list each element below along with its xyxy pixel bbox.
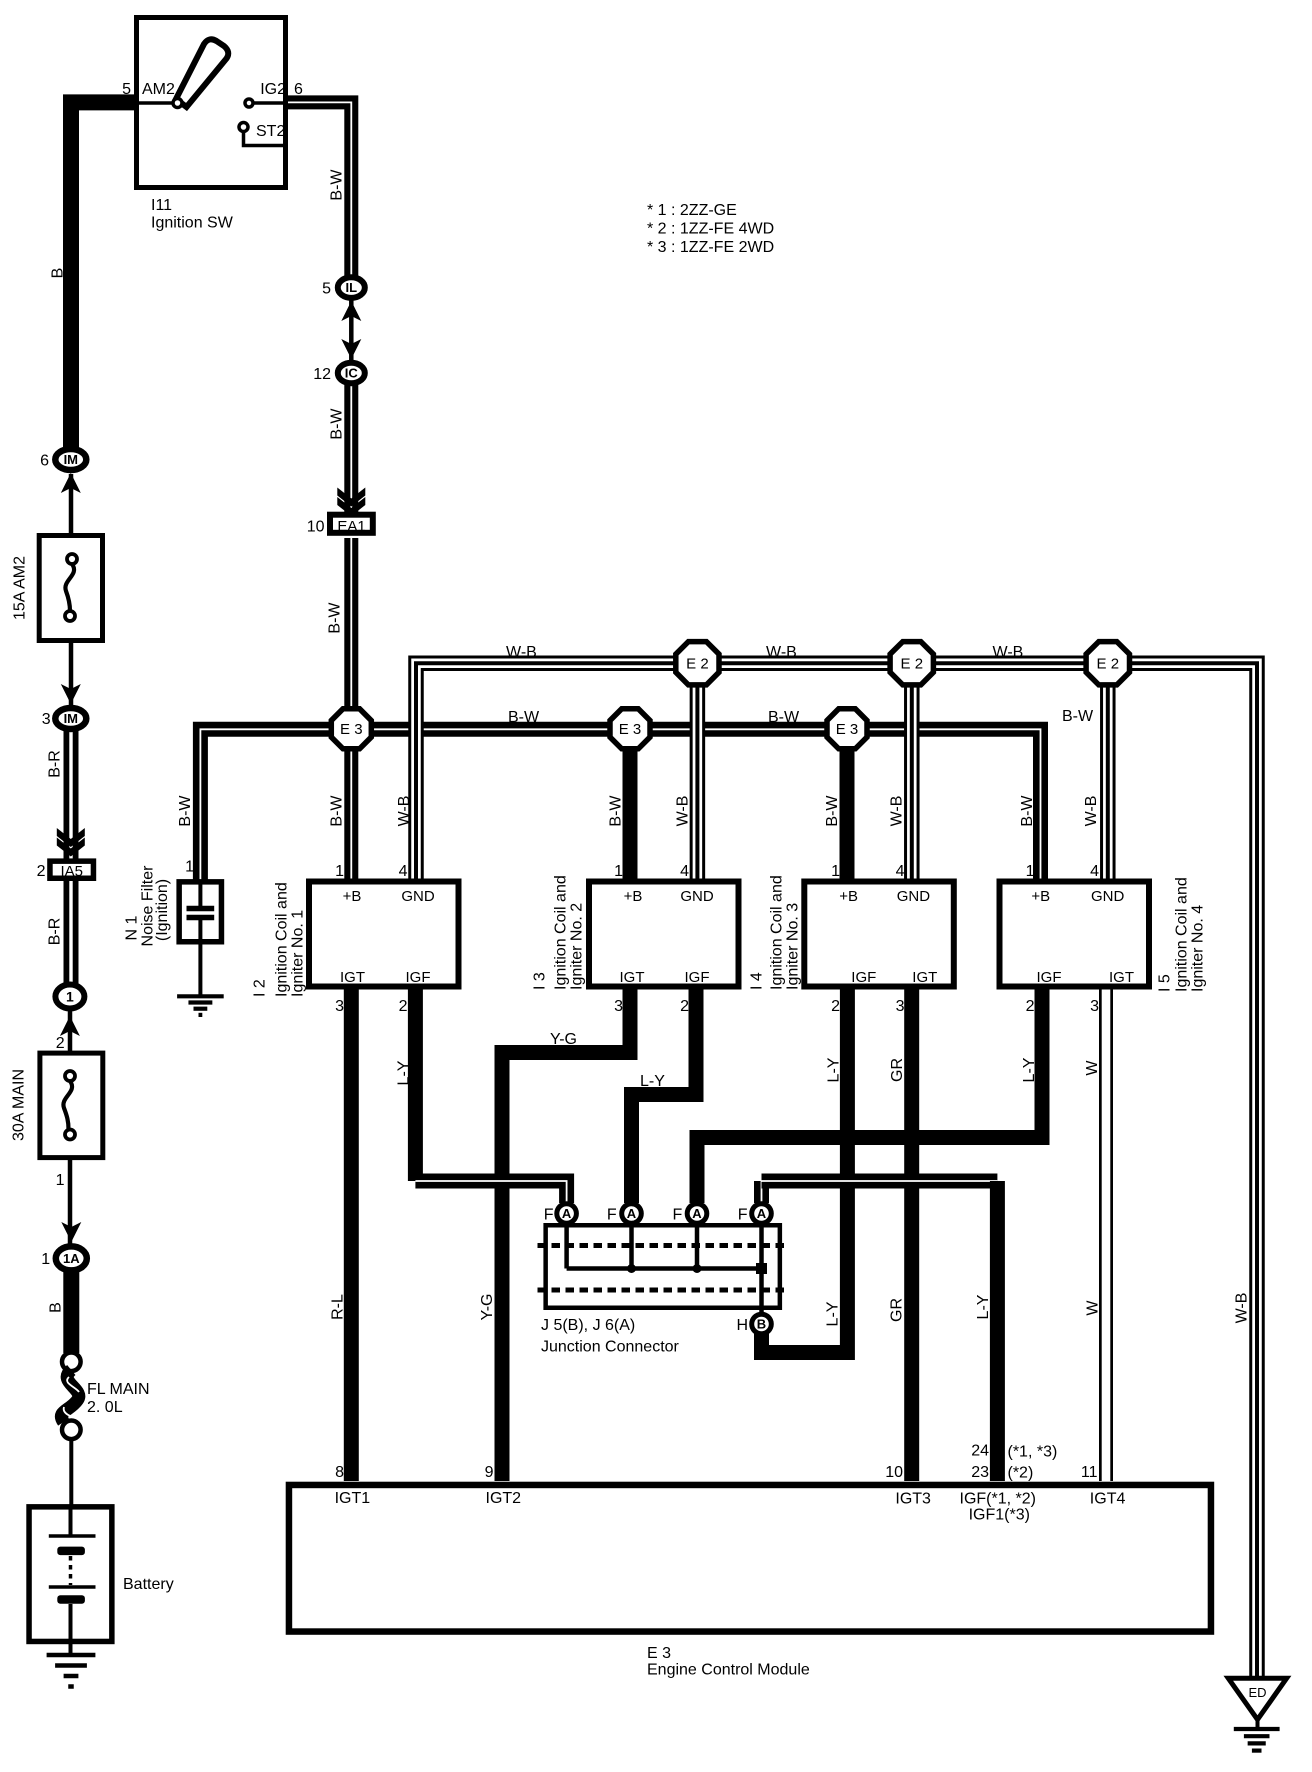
svg-text:2: 2 — [831, 998, 840, 1015]
svg-text:1A: 1A — [63, 1251, 80, 1266]
svg-text:+B: +B — [839, 888, 858, 905]
svg-text:B-W: B-W — [768, 709, 800, 726]
svg-text:B-W: B-W — [508, 709, 540, 726]
svg-text:Igniter No. 4: Igniter No. 4 — [1190, 905, 1207, 992]
svg-text:AM2: AM2 — [142, 81, 175, 98]
svg-text:10: 10 — [307, 519, 325, 536]
svg-text:H: H — [736, 1317, 748, 1334]
svg-text:IGF: IGF — [406, 969, 431, 986]
svg-text:5: 5 — [322, 281, 331, 298]
svg-text:L-Y: L-Y — [1021, 1057, 1038, 1082]
svg-text:Ignition Coil and: Ignition Coil and — [274, 882, 291, 997]
svg-text:ST2: ST2 — [256, 123, 285, 140]
svg-text:IGT1: IGT1 — [335, 1490, 371, 1507]
svg-text:W-B: W-B — [993, 644, 1024, 661]
svg-text:ED: ED — [1248, 1685, 1266, 1700]
svg-text:2: 2 — [399, 998, 408, 1015]
svg-text:FL MAIN: FL MAIN — [87, 1381, 150, 1398]
svg-text:IC: IC — [345, 366, 359, 381]
svg-text:IGF: IGF — [685, 969, 710, 986]
svg-text:W: W — [1085, 1300, 1102, 1316]
svg-text:E 3: E 3 — [836, 721, 859, 738]
svg-text:15A AM2: 15A AM2 — [12, 556, 29, 620]
svg-text:W-B: W-B — [1234, 1293, 1251, 1324]
svg-text:GND: GND — [401, 888, 435, 905]
svg-text:(*1, *3): (*1, *3) — [1008, 1444, 1058, 1461]
svg-text:2: 2 — [680, 998, 689, 1015]
svg-text:+B: +B — [1031, 888, 1050, 905]
svg-text:IL: IL — [346, 280, 358, 295]
svg-text:B-W: B-W — [824, 795, 841, 827]
svg-text:GR: GR — [889, 1298, 906, 1322]
svg-text:B-W: B-W — [177, 795, 194, 827]
svg-text:A: A — [757, 1206, 767, 1221]
svg-text:IGT: IGT — [340, 969, 365, 986]
svg-text:GND: GND — [680, 888, 714, 905]
svg-text:B-W: B-W — [1019, 795, 1036, 827]
svg-text:IGT: IGT — [1109, 969, 1134, 986]
svg-text:N 1: N 1 — [124, 915, 141, 940]
svg-text:EA1: EA1 — [337, 518, 365, 535]
svg-text:IA5: IA5 — [60, 863, 83, 880]
svg-text:4: 4 — [896, 863, 905, 880]
svg-text:F: F — [544, 1207, 554, 1224]
svg-text:IGT4: IGT4 — [1090, 1491, 1126, 1508]
svg-text:B-R: B-R — [47, 750, 64, 778]
svg-text:A: A — [692, 1206, 702, 1221]
svg-text:F: F — [607, 1207, 617, 1224]
svg-text:IGT: IGT — [620, 969, 645, 986]
svg-text:* 1 : 2ZZ-GE: * 1 : 2ZZ-GE — [647, 202, 737, 219]
svg-text:I11: I11 — [151, 197, 172, 214]
svg-text:L-Y: L-Y — [825, 1301, 842, 1326]
svg-text:A: A — [627, 1206, 637, 1221]
svg-text:Y-G: Y-G — [479, 1294, 496, 1321]
svg-text:IGT3: IGT3 — [895, 1491, 931, 1508]
svg-text:F: F — [738, 1207, 748, 1224]
svg-text:B-W: B-W — [608, 795, 625, 827]
svg-text:10: 10 — [885, 1464, 903, 1481]
svg-text:2: 2 — [56, 1035, 65, 1052]
svg-text:W-B: W-B — [1083, 796, 1100, 827]
svg-text:E 2: E 2 — [686, 655, 709, 672]
svg-text:W-B: W-B — [766, 644, 797, 661]
svg-text:1: 1 — [614, 863, 623, 880]
svg-text:B: B — [50, 268, 67, 279]
svg-text:I 4: I 4 — [749, 972, 766, 990]
svg-text:B: B — [757, 1317, 766, 1332]
svg-text:1: 1 — [41, 1251, 50, 1268]
svg-text:R-L: R-L — [330, 1294, 347, 1320]
svg-text:Igniter No. 2: Igniter No. 2 — [569, 903, 586, 990]
svg-text:1: 1 — [185, 859, 194, 876]
svg-text:1: 1 — [831, 863, 840, 880]
svg-text:4: 4 — [1090, 863, 1099, 880]
svg-text:Engine Control Module: Engine Control Module — [647, 1662, 810, 1679]
svg-text:GR: GR — [889, 1058, 906, 1082]
svg-text:E 3: E 3 — [647, 1645, 671, 1662]
svg-text:6: 6 — [294, 81, 303, 98]
svg-text:11: 11 — [1081, 1464, 1098, 1481]
svg-text:1: 1 — [56, 1172, 65, 1189]
svg-text:9: 9 — [485, 1464, 494, 1481]
svg-text:E 3: E 3 — [340, 721, 363, 738]
svg-text:6: 6 — [40, 453, 49, 470]
svg-text:IM: IM — [64, 452, 78, 467]
svg-text:(Ignition): (Ignition) — [154, 879, 171, 941]
svg-text:E 2: E 2 — [1097, 655, 1120, 672]
svg-text:IGF: IGF — [1037, 969, 1062, 986]
svg-text:GND: GND — [1091, 888, 1125, 905]
svg-text:W-B: W-B — [889, 796, 906, 827]
svg-text:1: 1 — [66, 988, 74, 1004]
svg-text:B-W: B-W — [1062, 708, 1094, 725]
svg-text:B-R: B-R — [47, 918, 64, 946]
svg-text:E 3: E 3 — [619, 721, 642, 738]
svg-text:1: 1 — [335, 863, 344, 880]
svg-text:+B: +B — [624, 888, 643, 905]
svg-text:3: 3 — [896, 998, 905, 1015]
svg-text:E 2: E 2 — [901, 655, 924, 672]
svg-text:+B: +B — [343, 888, 362, 905]
svg-text:L-Y: L-Y — [826, 1057, 843, 1082]
svg-text:3: 3 — [614, 998, 623, 1015]
svg-text:B: B — [47, 1302, 64, 1313]
svg-text:2. 0L: 2. 0L — [87, 1399, 123, 1416]
svg-text:B-W: B-W — [327, 602, 344, 634]
svg-text:L-Y: L-Y — [396, 1060, 413, 1085]
svg-text:23: 23 — [971, 1464, 989, 1481]
svg-text:I 5: I 5 — [1157, 974, 1174, 992]
svg-text:1: 1 — [1026, 863, 1035, 880]
svg-text:F: F — [673, 1207, 683, 1224]
svg-text:Ignition Coil and: Ignition Coil and — [553, 875, 570, 990]
svg-text:A: A — [562, 1206, 572, 1221]
svg-text:30A MAIN: 30A MAIN — [11, 1069, 28, 1141]
svg-text:I 3: I 3 — [532, 972, 549, 990]
svg-text:3: 3 — [42, 711, 51, 728]
svg-text:Ignition Coil and: Ignition Coil and — [769, 875, 786, 990]
svg-text:4: 4 — [680, 863, 689, 880]
svg-text:IM: IM — [64, 711, 78, 726]
svg-text:W: W — [1084, 1060, 1101, 1076]
svg-text:24: 24 — [971, 1443, 989, 1460]
svg-text:IGF: IGF — [851, 969, 876, 986]
svg-text:* 2 : 1ZZ-FE 4WD: * 2 : 1ZZ-FE 4WD — [647, 221, 774, 238]
svg-text:12: 12 — [313, 366, 331, 383]
svg-text:I 2: I 2 — [252, 979, 269, 997]
svg-text:2: 2 — [1026, 998, 1035, 1015]
svg-text:Y-G: Y-G — [550, 1031, 577, 1048]
svg-text:IGT2: IGT2 — [486, 1490, 522, 1507]
svg-text:B-W: B-W — [329, 408, 346, 440]
svg-text:4: 4 — [399, 863, 408, 880]
svg-text:Igniter No. 1: Igniter No. 1 — [290, 910, 307, 997]
svg-text:8: 8 — [335, 1464, 344, 1481]
svg-text:GND: GND — [897, 888, 931, 905]
svg-text:IGF1(*3): IGF1(*3) — [969, 1507, 1030, 1524]
svg-text:Igniter No. 3: Igniter No. 3 — [785, 903, 802, 990]
svg-text:Battery: Battery — [123, 1576, 174, 1593]
svg-text:Ignition Coil and: Ignition Coil and — [1174, 877, 1191, 992]
svg-text:5: 5 — [122, 81, 131, 98]
svg-text:W-B: W-B — [675, 796, 692, 827]
svg-text:J 5(B), J 6(A): J 5(B), J 6(A) — [541, 1317, 635, 1334]
svg-text:W-B: W-B — [506, 644, 537, 661]
svg-text:L-Y: L-Y — [975, 1294, 992, 1319]
svg-text:(*2): (*2) — [1008, 1465, 1034, 1482]
svg-text:L-Y: L-Y — [640, 1073, 665, 1090]
svg-text:W-B: W-B — [396, 796, 413, 827]
svg-text:B-W: B-W — [329, 169, 346, 201]
svg-text:3: 3 — [1090, 998, 1099, 1015]
svg-text:IGF(*1, *2): IGF(*1, *2) — [960, 1491, 1036, 1508]
svg-text:Ignition SW: Ignition SW — [151, 215, 234, 232]
svg-text:* 3 : 1ZZ-FE 2WD: * 3 : 1ZZ-FE 2WD — [647, 239, 774, 256]
svg-text:Junction Connector: Junction Connector — [541, 1339, 680, 1356]
svg-text:IG2: IG2 — [260, 81, 286, 98]
svg-text:B-W: B-W — [329, 795, 346, 827]
svg-text:IGT: IGT — [912, 969, 937, 986]
svg-text:3: 3 — [335, 998, 344, 1015]
svg-text:2: 2 — [37, 863, 46, 880]
